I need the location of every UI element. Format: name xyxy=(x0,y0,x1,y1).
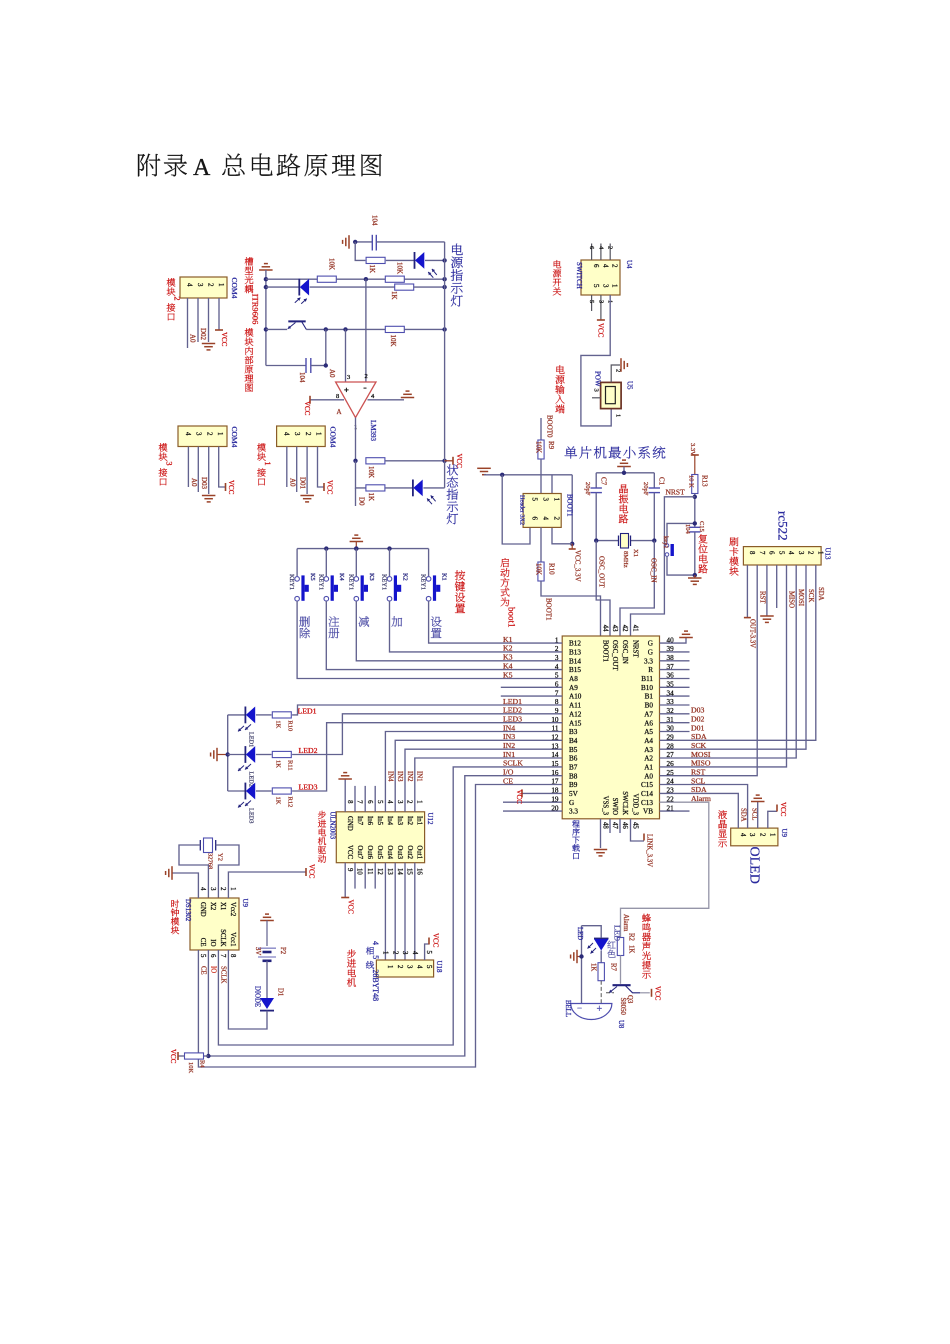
svg-text:rc522: rc522 xyxy=(776,511,791,541)
svg-text:4: 4 xyxy=(739,833,746,837)
svg-text:−: − xyxy=(577,1003,582,1013)
node reset bottom xyxy=(693,573,697,577)
svg-text:P2: P2 xyxy=(279,947,286,955)
svg-text:3: 3 xyxy=(164,461,174,465)
MCU right stubs pins 21,30-39 xyxy=(660,810,690,812)
svg-text:5: 5 xyxy=(376,800,383,804)
label key 加 xyxy=(392,616,403,626)
wire LED1 to MCU xyxy=(292,705,562,715)
svg-text:1K: 1K xyxy=(368,265,376,274)
svg-text:10K: 10K xyxy=(535,563,543,575)
svg-text:4: 4 xyxy=(386,800,393,804)
svg-text:LED3: LED3 xyxy=(299,783,318,792)
svg-text:B8: B8 xyxy=(569,772,578,780)
svg-text:In2: In2 xyxy=(406,816,413,826)
wire row3 left xyxy=(266,278,317,280)
capacitor C 104 top xyxy=(355,241,372,243)
svg-text:Q3: Q3 xyxy=(626,995,633,1004)
svg-text:10 K: 10 K xyxy=(688,475,695,488)
svg-text:A0: A0 xyxy=(190,478,198,487)
label 电源开关 xyxy=(554,260,561,268)
ground MCU pin40 xyxy=(679,637,693,639)
diode D1 DIODE xyxy=(260,998,274,1009)
svg-text:R13: R13 xyxy=(701,475,709,487)
svg-text:2: 2 xyxy=(219,887,226,891)
diode LED buzzer indicator xyxy=(594,938,609,940)
svg-text:5: 5 xyxy=(199,954,206,958)
node keys bus K3 xyxy=(354,546,358,550)
wire COM4-2 pin2 xyxy=(208,298,210,342)
power VCC ULN pin9 xyxy=(341,897,349,899)
crystal Y2 32768 xyxy=(204,838,213,853)
crystal X1 8MHz xyxy=(596,540,618,542)
wire row4 mid xyxy=(310,286,395,288)
svg-text:3.3V: 3.3V xyxy=(689,443,696,456)
svg-text:LM393: LM393 xyxy=(369,420,377,442)
svg-text:10K: 10K xyxy=(328,258,336,270)
ground LED bus xyxy=(216,748,218,761)
svg-text:K5: K5 xyxy=(309,573,316,581)
svg-text:20pF: 20pF xyxy=(584,482,591,496)
svg-text:3: 3 xyxy=(401,951,408,955)
svg-text:A9: A9 xyxy=(569,684,578,692)
svg-text:OSC_OUT: OSC_OUT xyxy=(598,556,606,588)
wire LED1 row xyxy=(228,714,246,716)
ground battery xyxy=(260,920,274,922)
ground COM4-3 xyxy=(202,495,216,497)
wire header right loop xyxy=(571,475,573,544)
ground COM4-1 xyxy=(300,495,314,497)
svg-text:1K: 1K xyxy=(275,720,282,728)
svg-text:A: A xyxy=(193,155,211,181)
svg-text:R7: R7 xyxy=(610,963,617,972)
node header right xyxy=(570,542,574,546)
svg-text:VB: VB xyxy=(643,808,653,816)
wire MCU pin40 ground xyxy=(660,638,687,644)
svg-text:A0: A0 xyxy=(644,772,653,780)
svg-text:C15: C15 xyxy=(641,781,653,789)
svg-text:SCLK: SCLK xyxy=(219,929,226,946)
svg-text:ULN2003: ULN2003 xyxy=(329,812,336,840)
svg-text:A8: A8 xyxy=(569,675,578,683)
wire COM4-2 pin1 VCC xyxy=(218,298,220,330)
svg-text:10K: 10K xyxy=(535,441,543,453)
node bus out xyxy=(442,459,446,463)
svg-text:MISO: MISO xyxy=(787,591,794,608)
svg-text:COM4: COM4 xyxy=(230,278,239,299)
wire Y2 left loop to X2 xyxy=(179,845,208,898)
svg-text:8: 8 xyxy=(748,551,755,555)
svg-text:B13: B13 xyxy=(569,649,581,657)
node keys bus K4 xyxy=(324,546,328,550)
svg-text:1K: 1K xyxy=(275,760,282,768)
node header left xyxy=(500,473,504,477)
wire right bus VCC xyxy=(444,242,446,488)
transistor optocoupler phototransistor xyxy=(288,320,305,322)
wire Out4-Out1 to stepper xyxy=(384,863,386,960)
ground buzzer xyxy=(576,950,578,963)
connector COM4 module-3 interface xyxy=(178,426,227,447)
svg-text:OSC_IN: OSC_IN xyxy=(621,640,628,664)
svg-text:IO: IO xyxy=(210,966,217,973)
battery P2 3V xyxy=(258,947,276,949)
svg-text:D1: D1 xyxy=(277,988,284,996)
wire left bus xyxy=(265,270,267,366)
svg-text:key1: key1 xyxy=(662,536,669,549)
svg-text:KEY1: KEY1 xyxy=(288,574,295,590)
svg-text:D03: D03 xyxy=(691,706,705,715)
node bus row3 xyxy=(442,277,446,281)
label 模块1接口 xyxy=(257,443,266,451)
svg-text:4: 4 xyxy=(199,887,206,891)
svg-text:1K: 1K xyxy=(275,797,282,805)
svg-text:R11: R11 xyxy=(287,760,294,771)
svg-text:D02: D02 xyxy=(199,328,207,341)
node keys bus K2 xyxy=(387,546,391,550)
svg-text:2: 2 xyxy=(807,551,814,555)
connector U5 POW power input xyxy=(601,382,622,408)
power VCC COM4-1 xyxy=(323,483,325,491)
svg-text:3.3: 3.3 xyxy=(644,657,653,665)
svg-text:U9: U9 xyxy=(241,899,249,908)
label 启动方式为boot1 xyxy=(500,558,508,567)
resistor R11 1K xyxy=(272,751,291,757)
wire LED to R7 xyxy=(600,951,602,963)
svg-text:GND: GND xyxy=(346,816,353,831)
svg-text:3: 3 xyxy=(597,300,604,303)
ground reset xyxy=(694,575,696,578)
wire COM4-1 pin4 A0 xyxy=(286,447,288,488)
label 步进电机 xyxy=(347,949,356,958)
svg-text:B14: B14 xyxy=(569,657,581,665)
capacitor C7 20pF xyxy=(595,473,597,488)
wire LED3 row xyxy=(228,790,246,792)
svg-text:6: 6 xyxy=(531,517,539,521)
label 模块2接口 xyxy=(167,278,176,286)
wire ULN pin8 ground xyxy=(344,779,346,812)
pushbutton KEY1 K1 xyxy=(428,549,430,576)
svg-text:In1: In1 xyxy=(416,816,423,825)
svg-text:BOOT1: BOOT1 xyxy=(566,494,574,517)
svg-text:Out6: Out6 xyxy=(366,845,373,859)
svg-text:KEY1: KEY1 xyxy=(420,574,427,590)
wire res to status LED xyxy=(385,487,413,489)
wire row5 xyxy=(266,328,287,330)
svg-text:47: 47 xyxy=(611,822,618,829)
power VCC right bus xyxy=(445,460,453,462)
svg-text:11: 11 xyxy=(366,868,373,875)
svg-text:R: R xyxy=(648,666,653,674)
wire MCU pin48 ground xyxy=(600,819,602,848)
svg-text:4: 4 xyxy=(411,951,418,955)
svg-text:1: 1 xyxy=(217,283,225,287)
wire IO net xyxy=(208,776,562,1056)
svg-text:C7: C7 xyxy=(600,477,608,486)
svg-text:B6: B6 xyxy=(569,755,578,763)
wire LED top rail xyxy=(582,926,602,938)
wire rc522 pin4 MISO to MCU pin26 xyxy=(660,565,787,767)
svg-text:2: 2 xyxy=(607,246,614,249)
svg-text:1: 1 xyxy=(611,284,619,288)
svg-text:CE: CE xyxy=(199,938,206,947)
svg-text:GND: GND xyxy=(199,902,206,917)
svg-text:2: 2 xyxy=(391,951,398,955)
transistor Q3 S8050 xyxy=(613,984,631,986)
svg-text:LED: LED xyxy=(576,927,583,940)
svg-text:A5: A5 xyxy=(644,728,653,736)
label 时钟模块 xyxy=(171,900,179,908)
wire row4 right xyxy=(413,286,444,288)
svg-text:IO: IO xyxy=(209,939,216,946)
ground DS1302 xyxy=(171,866,173,880)
label 按键设置 xyxy=(455,570,465,580)
IC U12 ULN2003 xyxy=(336,812,424,863)
svg-text:2: 2 xyxy=(758,833,765,837)
wire COM4-2 pin3 D02 xyxy=(197,298,199,342)
wire IN3 from MCU pin12 xyxy=(395,740,562,812)
svg-text:4: 4 xyxy=(186,283,194,287)
svg-text:SWIO: SWIO xyxy=(611,798,618,815)
wire header pin2 bottom xyxy=(552,527,572,543)
svg-text:BELL: BELL xyxy=(564,1000,571,1017)
power VCC switch xyxy=(597,319,605,321)
svg-text:3: 3 xyxy=(195,432,203,436)
node left bus row4 xyxy=(264,285,268,289)
svg-text:K4: K4 xyxy=(338,573,345,582)
svg-text:3: 3 xyxy=(347,374,350,381)
diode LED1 xyxy=(244,707,246,724)
svg-text:SWCLK: SWCLK xyxy=(621,791,628,815)
label 模块3接口 xyxy=(159,443,168,451)
svg-text:R2: R2 xyxy=(628,933,635,942)
svg-text:OLED: OLED xyxy=(747,847,762,884)
svg-text:VSS_3: VSS_3 xyxy=(602,796,609,816)
svg-text:A1: A1 xyxy=(644,763,653,771)
svg-text:4: 4 xyxy=(283,432,291,436)
svg-text:2: 2 xyxy=(172,296,182,300)
wire K1 to MCU pin1 xyxy=(429,601,563,643)
power VCC OLED xyxy=(776,805,778,812)
svg-text:BOOT1: BOOT1 xyxy=(602,640,609,662)
power VCC COM4-3 xyxy=(225,483,227,491)
wire battery to D1 xyxy=(266,961,268,998)
power VCC pullup xyxy=(177,1052,179,1060)
svg-text:7: 7 xyxy=(219,954,226,958)
label 液晶显示 xyxy=(718,810,727,819)
svg-text:3: 3 xyxy=(406,965,413,969)
wire U4 top stubs xyxy=(591,244,593,261)
label 槽型光耦ITR9606模块内部原理图 xyxy=(245,257,253,265)
wire row3 mid xyxy=(337,278,386,280)
title 附录A 总电路原理图 xyxy=(138,154,160,177)
svg-text:104: 104 xyxy=(684,524,691,535)
svg-text:NRST: NRST xyxy=(666,488,686,497)
svg-text:COM4: COM4 xyxy=(230,427,239,448)
ground opamp xyxy=(401,397,414,399)
resistor R4 10K pullup xyxy=(204,1055,209,1057)
label 复位电路 xyxy=(699,534,708,543)
node opamp out xyxy=(353,459,357,463)
pushbutton key1 xyxy=(666,541,668,544)
svg-text:VCC_3.3V: VCC_3.3V xyxy=(574,550,582,582)
wire MCU pin45 LINK_3.3V xyxy=(631,819,645,841)
svg-text:Vcc1: Vcc1 xyxy=(229,932,236,946)
svg-text:8: 8 xyxy=(229,954,236,958)
svg-text:X2: X2 xyxy=(209,902,216,911)
svg-text:LED2: LED2 xyxy=(299,746,318,755)
svg-text:C13: C13 xyxy=(641,799,653,807)
resistor 1K row4 xyxy=(395,284,414,290)
svg-text:VCC: VCC xyxy=(308,864,316,879)
svg-text:1: 1 xyxy=(263,461,273,465)
svg-text:boot1: boot1 xyxy=(507,607,517,628)
svg-text:1: 1 xyxy=(768,833,775,836)
wire rc522 pin2 SCK to MCU pin28 xyxy=(660,565,807,749)
wire NRST to pin41 xyxy=(631,497,695,636)
svg-text:1: 1 xyxy=(386,965,393,968)
svg-text:SDA: SDA xyxy=(817,587,824,601)
node bus row4 xyxy=(442,285,446,289)
svg-text:3: 3 xyxy=(601,284,609,288)
IC U9 DS1302 xyxy=(190,898,239,950)
svg-text:B0: B0 xyxy=(645,702,654,710)
label 晶振电路 xyxy=(619,484,628,493)
svg-text:43: 43 xyxy=(611,625,618,632)
wire crystal top rail xyxy=(623,467,625,473)
svg-text:A15: A15 xyxy=(569,719,582,727)
ground cap104 top xyxy=(348,235,350,249)
svg-text:U12: U12 xyxy=(426,813,434,826)
svg-text:12: 12 xyxy=(376,868,383,875)
svg-text:Out4: Out4 xyxy=(386,845,393,859)
power 3.3V reset xyxy=(691,454,699,456)
svg-text:G: G xyxy=(569,799,574,807)
wire COM4-3 pin4 A0 xyxy=(187,447,189,488)
svg-text:4: 4 xyxy=(542,517,550,521)
svg-text:2: 2 xyxy=(396,965,403,969)
svg-text:A2: A2 xyxy=(644,755,653,763)
svg-text:A12: A12 xyxy=(569,710,582,718)
wire LED bus left xyxy=(227,715,229,791)
svg-text:B9: B9 xyxy=(569,781,578,789)
ground rc522 xyxy=(760,615,774,617)
wire OSC_IN to pin42 xyxy=(620,541,654,636)
wire R2 to Q3 xyxy=(620,956,622,984)
svg-text:2: 2 xyxy=(365,373,368,380)
diode LED status indicator xyxy=(412,480,414,497)
svg-text:G: G xyxy=(648,649,653,657)
wire status LED to bus xyxy=(423,487,444,489)
wire ULN pins5-7 stubs xyxy=(354,786,356,812)
svg-text:6: 6 xyxy=(768,551,775,555)
svg-text:2: 2 xyxy=(553,517,561,521)
svg-text:3: 3 xyxy=(797,551,804,555)
svg-text:R10: R10 xyxy=(287,720,294,731)
node cap104 xyxy=(353,240,357,244)
svg-text:3: 3 xyxy=(293,432,301,436)
wire keys top bus xyxy=(297,548,429,550)
ground U5 xyxy=(620,358,622,372)
pushbutton KEY1 K4 xyxy=(325,549,327,576)
svg-text:VCC: VCC xyxy=(515,790,523,805)
svg-text:G: G xyxy=(648,640,653,648)
svg-text:NRST: NRST xyxy=(632,640,639,658)
wire rc522 pin7 RST to MCU pin25 xyxy=(660,565,758,776)
svg-text:VCC: VCC xyxy=(654,986,662,1001)
diode LED3 xyxy=(244,783,246,800)
power VCC buzzer xyxy=(651,989,653,997)
svg-text:1: 1 xyxy=(615,414,622,417)
node bus row2 xyxy=(442,258,446,262)
svg-text:B10: B10 xyxy=(641,684,653,692)
svg-text:R10: R10 xyxy=(548,563,556,575)
wire NRST node xyxy=(694,494,696,528)
svg-text:A0: A0 xyxy=(328,369,336,378)
svg-text:4: 4 xyxy=(415,965,422,969)
label 单片机最小系统 xyxy=(565,446,577,458)
connector COM4 module-2 interface xyxy=(180,277,227,298)
svg-text:SCK: SCK xyxy=(807,589,814,602)
connector U9 OLED xyxy=(731,828,778,846)
wire ULN pin9 VCC xyxy=(344,863,346,898)
svg-text:104: 104 xyxy=(371,215,379,226)
wire key1 branch xyxy=(667,523,695,541)
svg-text:5V: 5V xyxy=(569,790,579,798)
svg-text:K2: K2 xyxy=(401,573,408,581)
wire OLED pin4 SDA to MCU pin23 xyxy=(660,793,739,828)
wire vert x365 opamp pin2 xyxy=(365,279,367,382)
svg-text:R9: R9 xyxy=(547,441,555,450)
svg-text:Vcc2: Vcc2 xyxy=(229,902,236,917)
capacitor 104 bottom xyxy=(266,365,306,367)
wire D0 stub xyxy=(355,488,357,506)
svg-text:VDD_3: VDD_3 xyxy=(632,793,639,815)
node row5 x345 xyxy=(343,327,347,331)
wire MCU pin6 stub xyxy=(501,686,562,688)
svg-text:10K: 10K xyxy=(396,262,404,274)
svg-text:In5: In5 xyxy=(376,816,383,826)
wire IN4 from MCU pin11 xyxy=(385,732,562,812)
node left bus row5 xyxy=(264,327,268,331)
svg-text:VCC: VCC xyxy=(169,1049,177,1064)
svg-text:SDA: SDA xyxy=(739,808,746,822)
svg-text:3: 3 xyxy=(593,389,600,392)
svg-text:1K: 1K xyxy=(590,963,597,971)
resistor R13 10K xyxy=(692,475,698,494)
wire MCU pin46 stub xyxy=(619,819,621,833)
svg-text:COM4: COM4 xyxy=(329,427,338,448)
resistor 10K output xyxy=(366,458,385,464)
svg-text:1: 1 xyxy=(816,551,823,554)
node row3 xyxy=(364,277,368,281)
svg-text:1: 1 xyxy=(229,887,236,890)
svg-text:2: 2 xyxy=(205,432,213,436)
capacitor C15 104 xyxy=(689,526,700,528)
label 电源指示灯 xyxy=(452,244,462,255)
node left bus row3 xyxy=(264,277,268,281)
svg-text:3: 3 xyxy=(196,283,204,287)
svg-text:OSC_OUT: OSC_OUT xyxy=(611,640,618,671)
wire MCU pin18 VCC xyxy=(522,792,562,794)
wire COM4-3 pin2 xyxy=(208,447,210,495)
wire D1 to Vcc1 pin8 xyxy=(228,950,267,1029)
wire COM4-1 pin1 VCC xyxy=(318,447,324,488)
svg-text:3V: 3V xyxy=(254,947,261,955)
svg-text:VCC: VCC xyxy=(779,802,787,817)
svg-text:B15: B15 xyxy=(569,666,581,674)
svg-text:+: + xyxy=(597,1004,603,1015)
svg-text:48: 48 xyxy=(601,822,608,829)
